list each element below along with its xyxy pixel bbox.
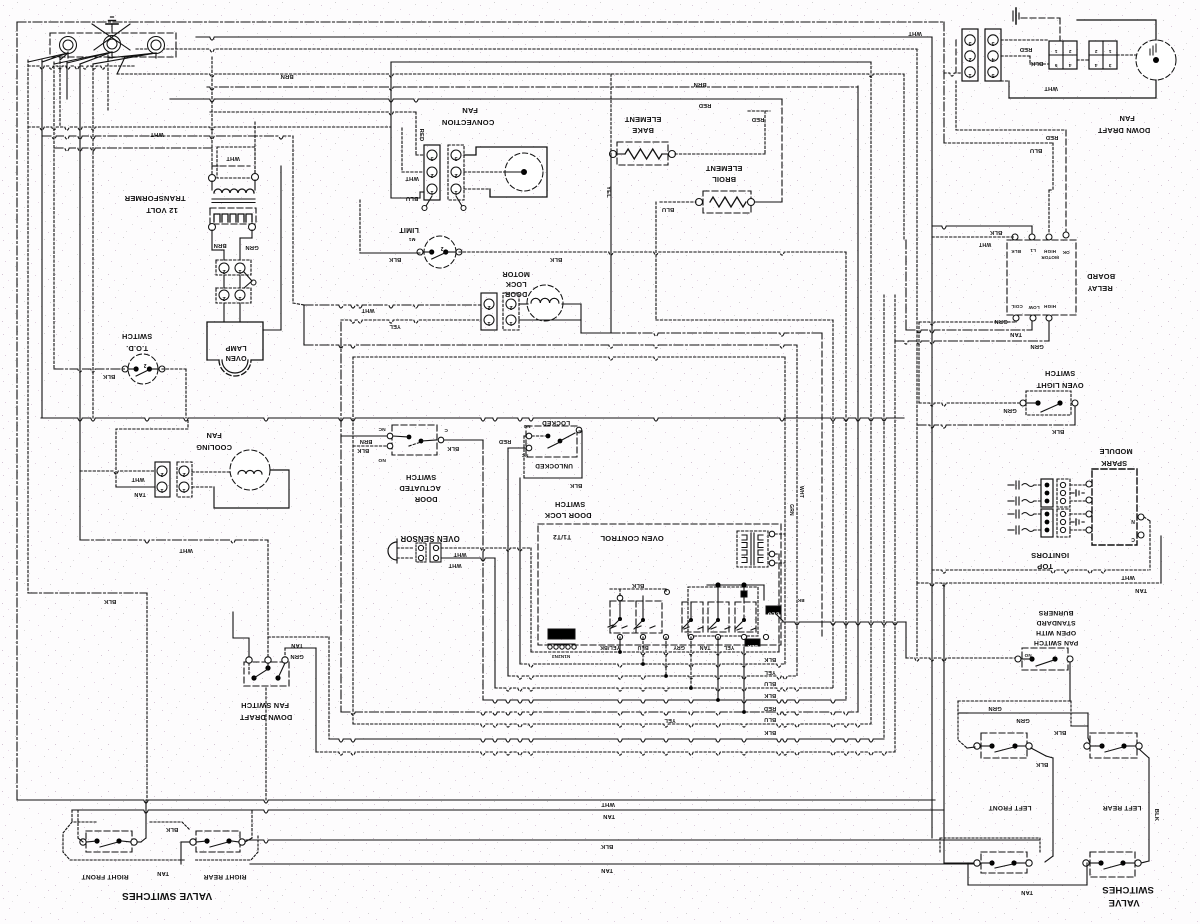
svg-text:2: 2 bbox=[487, 304, 490, 310]
svg-text:BLK: BLK bbox=[1053, 729, 1066, 735]
svg-text:1: 1 bbox=[160, 487, 163, 493]
svg-text:YEL: YEL bbox=[605, 186, 611, 198]
relay board U2 bbox=[1007, 232, 1076, 321]
label LOCKED bbox=[542, 419, 570, 426]
label 12 VOLT TRANSFORMER bbox=[124, 194, 186, 215]
svg-text:1: 1 bbox=[182, 487, 185, 493]
svg-text:WHT: WHT bbox=[1121, 574, 1135, 580]
relay board pin labels bbox=[1011, 248, 1070, 310]
wire cascade row y664 bbox=[520, 664, 785, 667]
label BLK tod bbox=[102, 373, 115, 379]
label BRN bus2 bbox=[693, 81, 706, 87]
wire pan right bbox=[1069, 662, 1071, 701]
wire vert x917 low bbox=[916, 583, 918, 658]
wire relay grn y341 bbox=[895, 295, 1049, 349]
svg-text:RIGHT FRONT: RIGHT FRONT bbox=[81, 873, 128, 880]
svg-text:BURNERS: BURNERS bbox=[1038, 609, 1073, 616]
wire bus y864 TAN bbox=[250, 863, 977, 865]
wire vert x531 bbox=[530, 548, 532, 652]
wire bus y87 BRN bbox=[207, 87, 858, 90]
cooling fan motor M1 bbox=[192, 450, 289, 508]
wire vert x495 bbox=[494, 558, 496, 688]
label TAN dfs bbox=[291, 642, 303, 648]
label BLK lf bbox=[1053, 729, 1066, 735]
valve switch right rear S9 bbox=[190, 831, 245, 852]
wire bus y74 bbox=[117, 74, 904, 77]
svg-text:OVEN CONTROL: OVEN CONTROL bbox=[600, 534, 664, 543]
label OVEN CONTROL bbox=[553, 533, 664, 543]
valve switch left front upper S10 bbox=[974, 733, 1032, 758]
label NO dl bbox=[523, 424, 530, 429]
label YEL doorlock bbox=[389, 323, 401, 329]
svg-text:WHT: WHT bbox=[150, 131, 164, 137]
wire conv pin2 feed bbox=[402, 128, 424, 172]
svg-text:HIGH: HIGH bbox=[1044, 249, 1056, 254]
svg-text:1: 1 bbox=[454, 189, 457, 195]
label terminal strip bbox=[551, 654, 570, 659]
svg-text:TAN: TAN bbox=[1010, 331, 1022, 337]
svg-text:C: C bbox=[1131, 536, 1135, 542]
wire left vert x93 bbox=[92, 64, 94, 418]
valve switch right front S8 bbox=[80, 831, 137, 852]
oven light switch S5 bbox=[1020, 391, 1078, 415]
oven control relay bank A bbox=[608, 595, 662, 633]
wire bankA top bbox=[610, 589, 670, 596]
convection fan connectors bbox=[422, 145, 466, 211]
label WHT right bbox=[908, 30, 922, 36]
svg-text:GRY: GRY bbox=[673, 644, 685, 650]
svg-text:SPARK: SPARK bbox=[1100, 459, 1127, 468]
wire broil bottom y202 bbox=[751, 201, 782, 203]
valve enclosure dotted bbox=[63, 822, 258, 860]
svg-text:1: 1 bbox=[1054, 48, 1057, 54]
wire grn loop lf bbox=[958, 701, 1088, 723]
wire limit left bbox=[360, 200, 420, 253]
wire door lock out bbox=[520, 431, 582, 664]
svg-text:GRN: GRN bbox=[994, 318, 1007, 324]
svg-text:BLK: BLK bbox=[631, 582, 644, 588]
down draft connector J1 bbox=[962, 29, 978, 81]
wire cascade row y739 bbox=[329, 739, 884, 742]
wire relay grn y322 bbox=[919, 318, 1016, 403]
label BLK y593 bbox=[103, 598, 116, 604]
label RED dd bbox=[1020, 46, 1033, 52]
svg-text:OVEN: OVEN bbox=[225, 354, 246, 363]
wire bus y839 BLK bbox=[246, 840, 1040, 843]
spark module U3 bbox=[1086, 469, 1144, 545]
svg-text:2: 2 bbox=[160, 471, 163, 477]
wire vert x416 conv bbox=[416, 112, 424, 155]
wire vert x895 bbox=[894, 341, 896, 752]
wire vert x904 bbox=[903, 74, 905, 240]
ignitor spark gaps bbox=[1008, 481, 1041, 534]
svg-text:3: 3 bbox=[1108, 62, 1111, 68]
svg-text:OVEN SENSOR: OVEN SENSOR bbox=[400, 534, 460, 543]
wire vert x846 bbox=[845, 252, 847, 700]
left front enclosure bbox=[958, 701, 1071, 748]
label NC door bbox=[378, 426, 386, 432]
label RED cascade r5 bbox=[764, 705, 776, 711]
svg-text:TAN: TAN bbox=[603, 813, 615, 819]
wire left vert x54 bbox=[53, 62, 55, 369]
svg-text:LOCKED: LOCKED bbox=[542, 419, 570, 426]
wire sensor wht1 bbox=[441, 548, 531, 557]
wire vert x341 bbox=[340, 322, 342, 712]
wire cascade row y676 bbox=[508, 676, 797, 679]
wire dd outline bbox=[1001, 20, 1156, 98]
wire WHT doorlock bbox=[304, 305, 481, 308]
label BLK bankA bbox=[631, 582, 644, 588]
svg-text:TAN: TAN bbox=[291, 642, 303, 648]
label RED bake bbox=[699, 102, 712, 108]
label UNLOCKED bbox=[535, 462, 573, 469]
wire limit right bbox=[459, 252, 846, 255]
svg-text:NC: NC bbox=[378, 426, 386, 432]
wire vert x917 bbox=[916, 49, 918, 583]
label WHT y540 bbox=[179, 547, 193, 553]
label CONVECTION FAN bbox=[442, 106, 495, 127]
wire rr feeds bbox=[181, 811, 252, 864]
svg-text:GRN: GRN bbox=[290, 653, 303, 659]
label WHT y800 bbox=[601, 801, 615, 807]
svg-text:FAN SWITCH: FAN SWITCH bbox=[241, 701, 289, 710]
wire bake right bbox=[675, 111, 770, 154]
label YEL cascade r2 bbox=[764, 669, 776, 675]
wire bus y112 bbox=[210, 112, 416, 115]
down draft fan switch S7 bbox=[244, 657, 289, 686]
svg-text:1: 1 bbox=[1108, 48, 1111, 54]
wire x281 to lamp bbox=[263, 329, 281, 331]
svg-text:GRN: GRN bbox=[1003, 407, 1016, 413]
svg-text:TAN: TAN bbox=[1135, 587, 1147, 593]
svg-text:BLK: BLK bbox=[764, 729, 776, 735]
svg-text:BLK: BLK bbox=[747, 643, 758, 649]
svg-text:BLU: BLU bbox=[1030, 147, 1043, 153]
down draft connector J2 bbox=[985, 29, 1001, 81]
convection fan motor M2 bbox=[464, 147, 547, 197]
wire bus y810 TAN bbox=[72, 810, 944, 822]
label YEL pin bbox=[723, 644, 734, 650]
svg-text:RED: RED bbox=[418, 129, 424, 142]
label BLK cascade r7 bbox=[764, 729, 776, 735]
svg-text:COIL: COIL bbox=[1011, 304, 1023, 309]
wire bus y99 bbox=[170, 99, 782, 102]
wire cascade pin drop x666 bbox=[664, 637, 668, 678]
ignitor connector top bbox=[1041, 479, 1070, 507]
svg-text:ELEMENT: ELEMENT bbox=[624, 115, 661, 124]
svg-text:2: 2 bbox=[182, 471, 185, 477]
svg-text:TAN: TAN bbox=[134, 491, 146, 497]
svg-text:RED: RED bbox=[499, 438, 511, 444]
svg-text:RELAY: RELAY bbox=[1087, 284, 1112, 293]
svg-text:LEFT FRONT: LEFT FRONT bbox=[988, 804, 1031, 811]
svg-text:4: 4 bbox=[1068, 62, 1071, 68]
wire ols right bbox=[917, 406, 1075, 434]
label DOWN DRAFT FAN SWITCH bbox=[239, 701, 292, 722]
cooling fan connectors bbox=[116, 418, 192, 497]
label YEL cascade long bbox=[664, 717, 676, 723]
oven control box U1 bbox=[538, 524, 781, 645]
label TAN pin bbox=[700, 644, 711, 650]
svg-text:3: 3 bbox=[454, 155, 457, 161]
svg-text:GRN: GRN bbox=[788, 504, 794, 516]
oven lamp bbox=[207, 322, 263, 376]
wire left vert x28 bbox=[27, 60, 29, 593]
svg-text:YEL: YEL bbox=[764, 669, 776, 675]
label WHT oct bbox=[798, 486, 804, 498]
svg-text:1: 1 bbox=[487, 320, 490, 326]
svg-text:BRN: BRN bbox=[280, 73, 293, 79]
svg-text:PAN SWITCH: PAN SWITCH bbox=[1034, 639, 1079, 646]
label C door bbox=[444, 427, 448, 433]
svg-text:WHT: WHT bbox=[978, 241, 991, 247]
wire vert x186 tod bbox=[185, 369, 187, 418]
wire bankB bus bbox=[707, 582, 764, 600]
wire dfs bottom bbox=[265, 688, 267, 800]
wire cascade row y724 bbox=[353, 724, 871, 727]
label TAN lower bbox=[1021, 889, 1033, 895]
label GRN dfs bbox=[290, 653, 303, 659]
svg-text:BLK: BLK bbox=[989, 229, 1002, 235]
svg-text:WHT: WHT bbox=[908, 30, 922, 36]
label SPARK MODULE bbox=[1099, 447, 1132, 468]
svg-text:TAN: TAN bbox=[700, 644, 711, 650]
wire relay pin3 bbox=[1049, 190, 1053, 234]
label BLK/WHT pin bbox=[745, 639, 760, 649]
down draft connector 2x2 B bbox=[1089, 41, 1117, 69]
wire lower links bbox=[944, 863, 1087, 885]
svg-text:5: 5 bbox=[991, 72, 994, 78]
lower lf enclosure bbox=[940, 838, 1040, 852]
wire conv pin1 feed bbox=[391, 192, 424, 198]
wire vert x932 bbox=[931, 37, 933, 838]
label NC dl bbox=[521, 453, 528, 458]
wire bus y345 bbox=[304, 345, 797, 348]
wire cascade row y712 bbox=[341, 712, 858, 715]
svg-text:BK: BK bbox=[797, 598, 805, 603]
svg-text:1: 1 bbox=[509, 320, 512, 326]
wire cascade row y700 bbox=[483, 700, 846, 703]
svg-text:BLK: BLK bbox=[1011, 249, 1021, 254]
wire relay pin4 bbox=[1065, 130, 1067, 232]
label BLK door r bbox=[447, 445, 459, 451]
wire vert x281 bbox=[280, 166, 282, 330]
wire BLK y593 bbox=[28, 592, 147, 594]
wire wavy y622 bbox=[776, 598, 906, 658]
connector lamp lower bbox=[216, 281, 252, 303]
svg-text:2: 2 bbox=[440, 245, 443, 251]
wire dfs grn bbox=[285, 648, 316, 752]
border frame top bbox=[17, 21, 944, 23]
label RED conv bbox=[418, 129, 424, 142]
wire bus y62 bbox=[391, 61, 871, 63]
svg-text:LOCK: LOCK bbox=[505, 280, 527, 289]
wire left vert x80 bbox=[79, 64, 81, 540]
svg-text:WHT: WHT bbox=[131, 476, 145, 482]
svg-text:BRN: BRN bbox=[213, 242, 226, 248]
T.O.D. switch S1 bbox=[122, 354, 165, 384]
label RIGHT FRONT bbox=[81, 873, 128, 880]
svg-text:MODULE: MODULE bbox=[1099, 447, 1132, 456]
label LIMIT bbox=[399, 226, 419, 242]
label COOLING FAN bbox=[196, 431, 232, 452]
wire cascade pin drop x643 bbox=[641, 637, 645, 666]
wire vert x391 conv bbox=[390, 62, 392, 198]
wire YEL doorlock bbox=[341, 320, 481, 323]
ignitor connector bottom bbox=[1041, 509, 1070, 537]
wire riser x785 bbox=[784, 534, 786, 664]
svg-text:ELEMENT: ELEMENT bbox=[705, 164, 742, 173]
wire bus y49 bbox=[136, 49, 917, 52]
label BLU cascade r6 bbox=[764, 716, 776, 722]
svg-text:WHT: WHT bbox=[798, 486, 804, 498]
bake element R1 bbox=[610, 142, 676, 165]
label DOOR ACTUATED SWITCH bbox=[399, 473, 441, 504]
wire door sw out bbox=[444, 440, 483, 700]
wire vert x871 bbox=[870, 62, 872, 724]
wire bus y136 bbox=[42, 136, 293, 139]
label BROIL ELEMENT bbox=[705, 164, 742, 184]
wire RED y130 bbox=[956, 81, 1066, 140]
svg-text:LIMIT: LIMIT bbox=[399, 226, 419, 235]
svg-text:TAN: TAN bbox=[601, 867, 613, 873]
svg-text:C: C bbox=[444, 427, 448, 433]
svg-text:TRANSFORMER: TRANSFORMER bbox=[124, 194, 186, 203]
svg-text:BRN: BRN bbox=[360, 438, 373, 444]
wire sensor wht2 bbox=[441, 558, 495, 568]
label LEFT REAR bbox=[1103, 804, 1142, 811]
oven sensor RTD bbox=[388, 539, 441, 563]
label RIGHT REAR bbox=[203, 873, 246, 880]
svg-text:IGNITORS: IGNITORS bbox=[1031, 551, 1069, 560]
oven control terminal strip bbox=[548, 629, 576, 649]
svg-text:TAN: TAN bbox=[1021, 889, 1033, 895]
svg-text:HIGH: HIGH bbox=[1044, 304, 1056, 309]
svg-text:3: 3 bbox=[968, 40, 971, 46]
svg-text:BLK: BLK bbox=[388, 256, 401, 262]
connector lamp upper bbox=[216, 260, 256, 285]
label TAN cf bbox=[134, 491, 146, 497]
svg-text:BROIL: BROIL bbox=[712, 175, 736, 184]
svg-text:SWITCH: SWITCH bbox=[406, 473, 436, 482]
svg-text:RED: RED bbox=[752, 116, 765, 122]
limit switch S2 bbox=[417, 236, 462, 268]
wire vert x255 feed bbox=[254, 122, 256, 174]
wire relay tan y330 bbox=[906, 240, 1032, 337]
svg-text:2: 2 bbox=[430, 172, 433, 178]
label BLK limit R bbox=[549, 256, 562, 262]
label OVEN LIGHT SWITCH bbox=[1036, 369, 1083, 390]
svg-text:2: 2 bbox=[968, 56, 971, 62]
svg-text:OPEN WITH: OPEN WITH bbox=[1036, 629, 1076, 636]
svg-text:WHT: WHT bbox=[448, 562, 462, 568]
label WHT dd bbox=[1044, 85, 1058, 91]
svg-text:M1: M1 bbox=[408, 237, 415, 242]
svg-text:BLK: BLK bbox=[549, 256, 562, 262]
svg-text:GRN: GRN bbox=[988, 705, 1001, 711]
svg-text:BLK: BLK bbox=[764, 656, 776, 662]
wire riser x779 bbox=[778, 637, 780, 652]
label BLK cascade r1 bbox=[764, 656, 776, 662]
svg-text:T1/T2: T1/T2 bbox=[553, 533, 571, 540]
wire oct leads bbox=[775, 345, 797, 660]
border frame left bbox=[16, 22, 18, 800]
svg-text:LOW: LOW bbox=[1028, 305, 1040, 310]
label GRN ols bbox=[1003, 407, 1016, 413]
svg-text:BLK: BLK bbox=[569, 482, 582, 488]
svg-text:1: 1 bbox=[430, 189, 433, 195]
svg-text:BLK: BLK bbox=[1030, 60, 1043, 66]
wire lamp conn links bbox=[224, 275, 240, 322]
wire dfs feeds bbox=[233, 612, 329, 739]
svg-text:WHT: WHT bbox=[179, 547, 193, 553]
wire bus y148 WHT bbox=[54, 148, 212, 151]
svg-text:BLK: BLK bbox=[165, 826, 178, 832]
svg-text:1: 1 bbox=[238, 295, 241, 301]
svg-text:COOLING: COOLING bbox=[196, 443, 232, 452]
wire ign verticals bbox=[1052, 143, 1054, 190]
svg-text:NO: NO bbox=[523, 424, 530, 429]
label BRN bus bbox=[280, 73, 293, 79]
svg-text:RED: RED bbox=[764, 705, 776, 711]
wire tod right bbox=[162, 368, 186, 370]
label YEL bake bbox=[605, 186, 611, 198]
wire relay top blk bbox=[932, 226, 1032, 235]
label BLU pin bbox=[637, 644, 648, 650]
svg-text:GRN: GRN bbox=[1030, 343, 1043, 349]
wire dd links bbox=[1001, 40, 1136, 64]
svg-text:YEL/BK: YEL/BK bbox=[600, 644, 620, 650]
svg-text:BLU: BLU bbox=[764, 680, 776, 686]
wire bus y37 BRN bbox=[196, 37, 932, 40]
label T.O.D. SWITCH bbox=[122, 332, 152, 353]
label BLK y839 bbox=[600, 843, 613, 849]
transformer T1 12 VOLT bbox=[209, 147, 259, 231]
svg-text:WHT: WHT bbox=[405, 175, 419, 181]
svg-text:WHT: WHT bbox=[226, 155, 240, 161]
svg-text:5: 5 bbox=[1054, 62, 1057, 68]
svg-text:DOOR: DOOR bbox=[414, 495, 437, 504]
svg-text:NO: NO bbox=[378, 457, 386, 463]
wire relay pin1 wht bbox=[932, 237, 1015, 247]
svg-text:LAMP: LAMP bbox=[225, 344, 246, 353]
wire left vert x67 bbox=[60, 55, 108, 127]
svg-text:3: 3 bbox=[430, 155, 433, 161]
svg-text:YEL: YEL bbox=[664, 717, 676, 723]
svg-text:OVEN LIGHT: OVEN LIGHT bbox=[1036, 381, 1083, 390]
svg-text:NC: NC bbox=[521, 453, 528, 458]
svg-text:1: 1 bbox=[968, 72, 971, 78]
wire bus y357 bbox=[353, 357, 785, 360]
label BLU broil bbox=[662, 206, 675, 212]
label BLU inv bbox=[766, 606, 781, 617]
wire lr out bbox=[1139, 749, 1149, 863]
svg-text:WHT: WHT bbox=[601, 801, 615, 807]
oven control pins bbox=[617, 634, 768, 639]
border frame bottom wire bbox=[17, 800, 935, 803]
wire bake left vert x611 bbox=[610, 74, 612, 333]
svg-text:OK: OK bbox=[1062, 250, 1070, 255]
svg-text:CONVECTION: CONVECTION bbox=[442, 118, 495, 127]
label BLK rf bbox=[165, 826, 178, 832]
svg-text:UNLOCKED: UNLOCKED bbox=[535, 462, 573, 469]
wire vert x267 DDF feed bbox=[267, 540, 269, 657]
door lock motor M3 bbox=[519, 285, 611, 333]
wire cascade pin drop x744 bbox=[742, 647, 746, 714]
label GRY pin bbox=[673, 644, 685, 650]
svg-text:WHT: WHT bbox=[453, 551, 467, 557]
svg-text:ACTUATED: ACTUATED bbox=[399, 484, 441, 493]
